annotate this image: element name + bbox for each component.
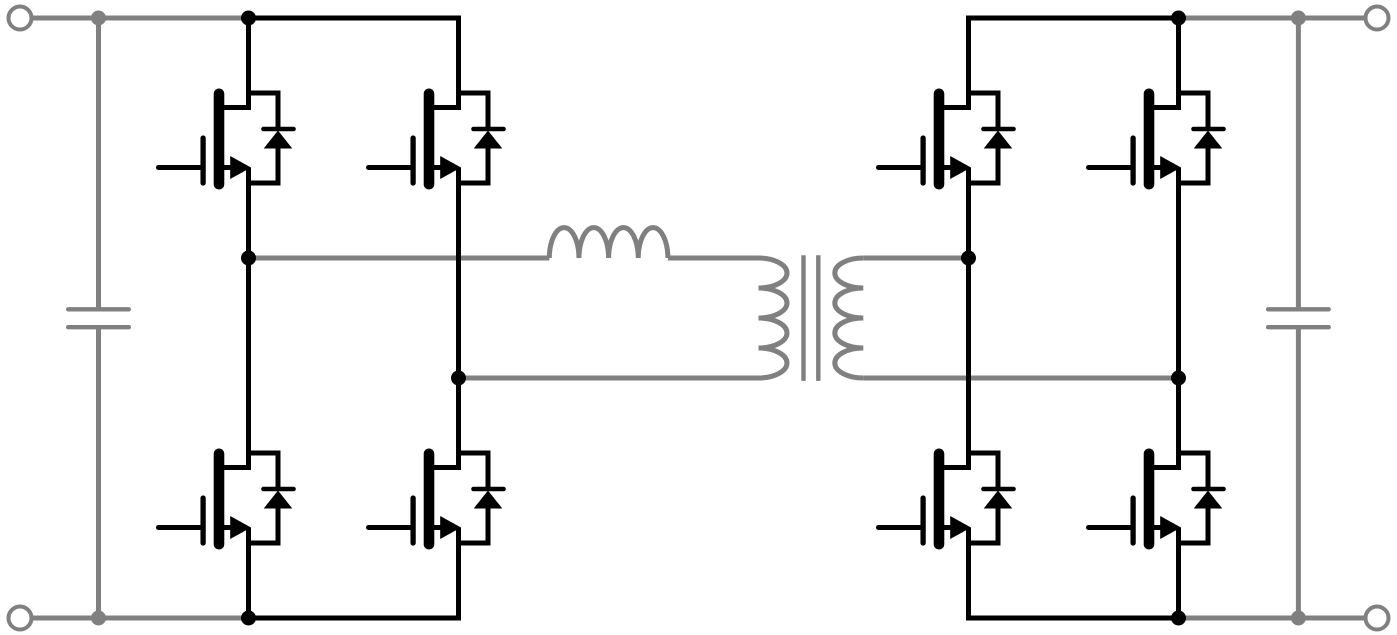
wire leg B middle [456, 168, 461, 471]
transistor Q4 (left bridge, leg B low side) [369, 453, 504, 544]
transistor Q6 (right bridge, leg C low side) [879, 453, 1014, 544]
wire right capacitor rail upper [1296, 18, 1301, 309]
transformer T1 core [801, 255, 805, 381]
wire left capacitor rail lower [96, 327, 101, 618]
wire leg A drain [246, 16, 251, 111]
wire top rail black left bridge [249, 16, 459, 21]
junction dot bottom rail / leg D [1171, 611, 1186, 626]
transistor Q1 (left bridge, leg A high side) [159, 93, 294, 184]
wire inductor to transformer primary [668, 256, 759, 261]
capacitor C2 top plate [1268, 307, 1329, 311]
wire top rail black right bridge [969, 16, 1179, 21]
junction dot gray top right [1291, 11, 1306, 26]
wire leg C source [966, 528, 971, 621]
transformer T1 primary winding [759, 258, 788, 378]
wire bottom rail black right bridge [969, 616, 1179, 621]
junction dot gray top left [91, 11, 106, 26]
wire right capacitor rail lower [1296, 327, 1301, 618]
junction dot gray bottom left [91, 611, 106, 626]
wire bottom rail gray right [1179, 616, 1367, 621]
wire top rail gray left [31, 16, 249, 21]
wire transformer secondary bottom to node D [863, 376, 1178, 381]
transistor Q2 (left bridge, leg A low side) [159, 453, 294, 544]
transistor Q7 (right bridge, leg D high side) [1089, 93, 1224, 184]
terminal bottom left [9, 607, 32, 630]
capacitor C2 bottom plate [1268, 325, 1329, 329]
junction dot top rail / leg A [241, 11, 256, 26]
wire leg B drain [456, 16, 461, 111]
wire leg D middle [1176, 168, 1181, 471]
wire leg A source [246, 528, 251, 621]
wire transformer secondary top to node C [863, 256, 968, 261]
wire leg A middle [246, 168, 251, 471]
capacitor C1 bottom plate [68, 325, 129, 329]
junction dot top rail / leg D [1171, 11, 1186, 26]
wire node A to inductor [249, 256, 550, 261]
wire left capacitor rail upper [96, 18, 101, 309]
junction dot node C [961, 251, 976, 266]
wire leg B source [456, 528, 461, 621]
wire leg D drain [1176, 16, 1181, 111]
wire transformer primary bottom to node B [459, 376, 759, 381]
wire leg D source [1176, 528, 1181, 621]
wire leg C drain [966, 16, 971, 111]
junction dot node B [451, 371, 466, 386]
wire bottom rail black left bridge [249, 616, 459, 621]
junction dot node D [1171, 371, 1186, 386]
terminal top right [1366, 7, 1389, 30]
inductor L1 [549, 228, 668, 258]
terminal bottom right [1366, 607, 1389, 630]
junction dot node A [241, 251, 256, 266]
junction dot gray bottom right [1291, 611, 1306, 626]
terminal top left [9, 7, 32, 30]
wire leg C middle [966, 168, 971, 471]
wire bottom rail gray left [31, 616, 249, 621]
transistor Q3 (left bridge, leg B high side) [369, 93, 504, 184]
capacitor C1 top plate [68, 307, 129, 311]
transformer T1 secondary winding [835, 258, 864, 378]
wire top rail gray right [1179, 16, 1367, 21]
transistor Q5 (right bridge, leg C high side) [879, 93, 1014, 184]
junction dot bottom rail / leg A [241, 611, 256, 626]
transistor Q8 (right bridge, leg D low side) [1089, 453, 1224, 544]
